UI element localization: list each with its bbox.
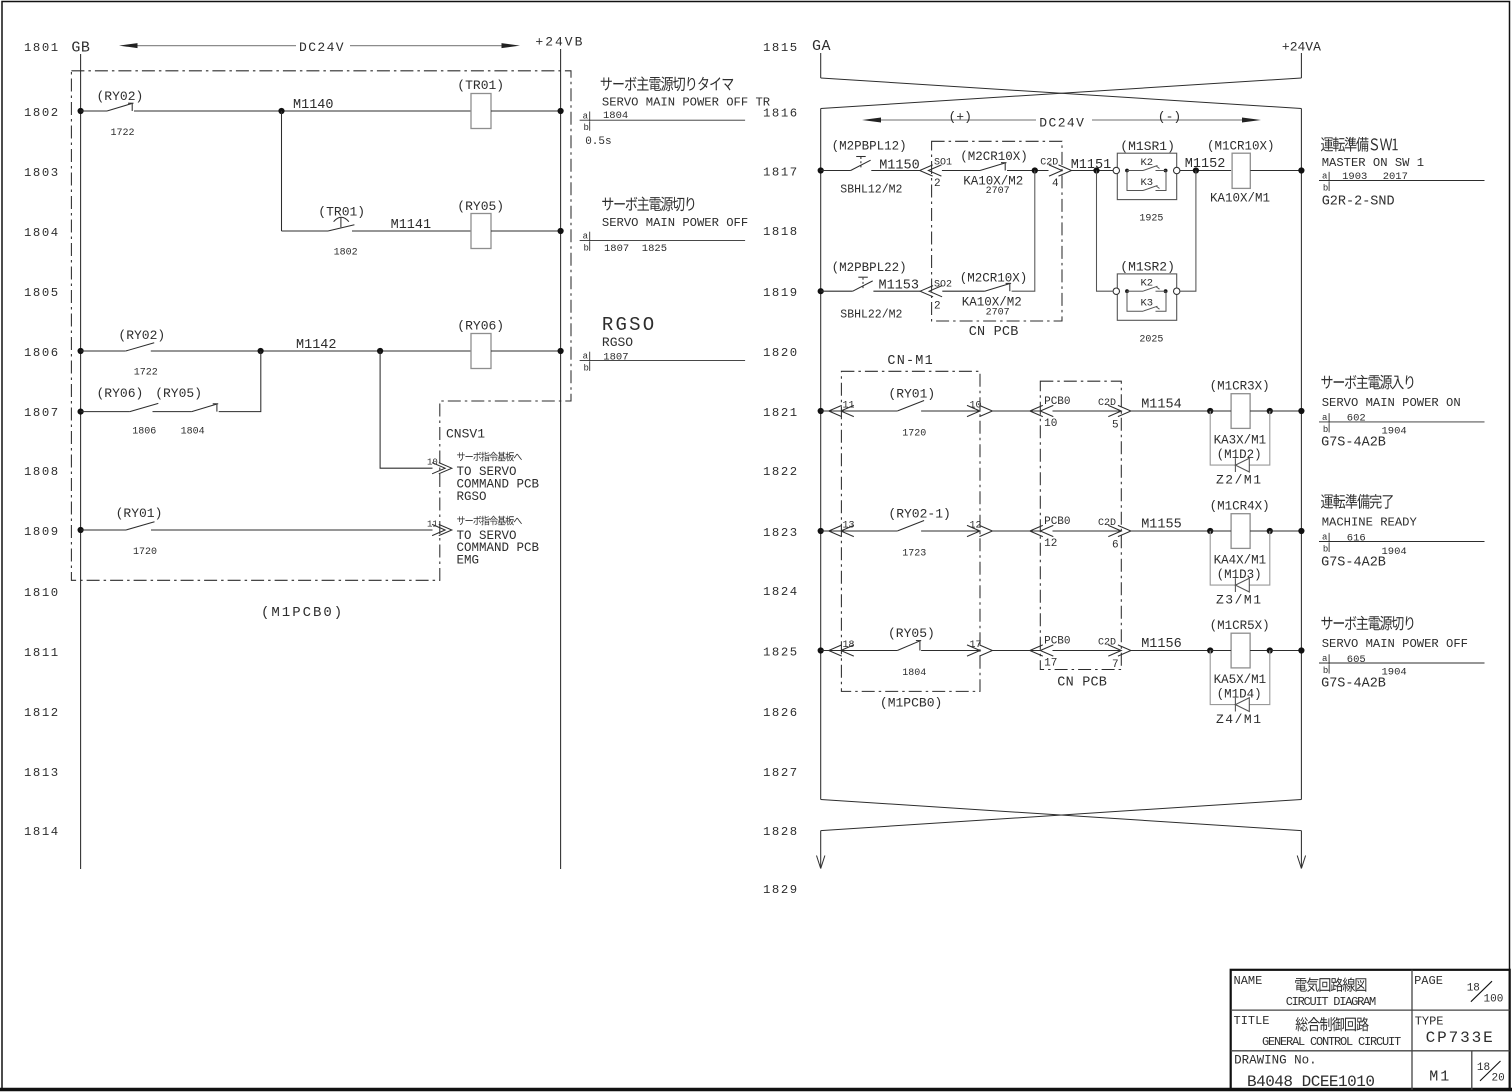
- wire through CN-M1 pin 13: [821, 530, 842, 532]
- junction node: [1267, 528, 1273, 534]
- svg-text:616: 616: [1347, 533, 1366, 545]
- GA rail bottom arrow: [820, 831, 822, 869]
- svg-text:1801: 1801: [24, 41, 60, 55]
- junction node M1140: [278, 108, 284, 114]
- CN-M1 connector boundary: [841, 371, 980, 691]
- cross-ref: machine ready (1823): [1321, 494, 1393, 509]
- contact (RY01): [841, 410, 897, 412]
- svg-text:C2D: C2D: [1098, 638, 1116, 649]
- junction node: [1267, 408, 1273, 414]
- svg-text:6: 6: [1112, 539, 1119, 551]
- svg-text:SO2: SO2: [934, 280, 952, 291]
- GA rail top: [820, 53, 822, 78]
- junction node: [1207, 647, 1213, 653]
- svg-text:1806: 1806: [24, 346, 60, 360]
- svg-text:1807 1825: 1807 1825: [604, 243, 667, 255]
- relay coil M1CR3X: [1231, 394, 1250, 429]
- svg-text:1805: 1805: [24, 286, 60, 300]
- connector pin PCB0 10 chevrons: [1030, 405, 1043, 416]
- svg-text:1804: 1804: [24, 226, 60, 240]
- svg-text:b: b: [584, 123, 589, 133]
- wire rung 1804: [282, 230, 329, 232]
- svg-text:MASTER ON SW 1: MASTER ON SW 1: [1322, 156, 1424, 170]
- cross-ref: servo main power off timer (1802): [601, 76, 734, 91]
- svg-text:1811: 1811: [24, 646, 60, 660]
- svg-text:(M1CR10X): (M1CR10X): [1207, 140, 1275, 154]
- DC24V bus voltage double arrow (right section): [880, 119, 1036, 121]
- cross-ref: servo main power off (1804): [602, 197, 694, 212]
- svg-text:(M2PBPL22): (M2PBPL22): [832, 261, 907, 275]
- wire coil to +24VA: [1250, 170, 1301, 172]
- svg-text:1821: 1821: [763, 406, 799, 420]
- svg-text:1804: 1804: [181, 427, 205, 438]
- svg-text:1820: 1820: [763, 346, 799, 360]
- svg-text:DC24V: DC24V: [299, 40, 345, 55]
- svg-text:12: 12: [970, 520, 982, 531]
- timer NO contact TR01 (1804): [328, 225, 354, 231]
- svg-text:KA4X/M1: KA4X/M1: [1214, 553, 1267, 567]
- NC contact M2CR10X (1819): [942, 290, 984, 292]
- interlock relay block M1SR1: [1117, 153, 1176, 199]
- svg-text:0.5s: 0.5s: [585, 136, 611, 148]
- svg-text:(M1D3): (M1D3): [1217, 568, 1262, 582]
- wire inside CN PCB: [1053, 410, 1122, 412]
- svg-text:1903: 1903: [1342, 171, 1367, 183]
- svg-text:1815: 1815: [763, 41, 799, 55]
- junction node M1152: [1193, 167, 1199, 173]
- relay coil RY05: [471, 214, 491, 249]
- wire M1156: [1131, 650, 1210, 652]
- svg-text:(TR01): (TR01): [318, 205, 365, 220]
- svg-text:17: 17: [1044, 658, 1057, 670]
- svg-text:1807: 1807: [24, 406, 60, 420]
- wire through CN-M1 pin 18: [821, 650, 842, 652]
- svg-text:GENERAL CONTROL CIRCUIT: GENERAL CONTROL CIRCUIT: [1262, 1035, 1401, 1049]
- CN PCB (upper) board boundary: [932, 141, 1062, 321]
- junction node: [1267, 647, 1273, 653]
- node on GB rail rung 1807: [78, 409, 84, 415]
- svg-text:K3: K3: [1141, 298, 1154, 310]
- svg-text:(M1D4): (M1D4): [1217, 688, 1262, 702]
- node on GA rail: [818, 408, 824, 414]
- svg-text:PCB0: PCB0: [1044, 396, 1070, 408]
- contact (RY02-1): [841, 530, 897, 532]
- svg-text:(RY05): (RY05): [888, 626, 935, 641]
- connector pin SO1 chevrons: [920, 165, 933, 176]
- svg-text:M1152: M1152: [1185, 157, 1226, 172]
- svg-text:(TR01): (TR01): [457, 78, 504, 93]
- wire branch M1142 down to CNSV1 pin 10: [380, 351, 432, 468]
- wire inside CN PCB: [1053, 530, 1122, 532]
- wire and riser to rung 1806: [219, 351, 261, 412]
- wire to CN PCB: [992, 530, 1040, 532]
- svg-text:MACHINE READY: MACHINE READY: [1322, 516, 1418, 530]
- junction node to rung 1807 branch: [258, 348, 264, 354]
- NO contact RY01 (1809): [126, 522, 155, 530]
- relay coil M1CR4X: [1231, 514, 1250, 549]
- node on GB rail rung 1802: [78, 108, 84, 114]
- wire to +24VA rail: [1270, 530, 1302, 532]
- svg-text:b: b: [584, 243, 589, 253]
- junction node C2D riser: [1032, 167, 1038, 173]
- svg-text:1804: 1804: [902, 668, 926, 679]
- connector pin C2D chevrons: [1049, 165, 1062, 176]
- +24VA rail top: [1300, 53, 1302, 78]
- svg-text:(RY02): (RY02): [97, 89, 144, 104]
- svg-text:11: 11: [843, 400, 855, 411]
- svg-text:G7S-4A2B: G7S-4A2B: [1321, 436, 1386, 451]
- svg-text:18: 18: [843, 640, 855, 651]
- svg-text:M1142: M1142: [296, 338, 337, 353]
- wire through CN-M1 pin 11: [821, 410, 842, 412]
- svg-text:1828: 1828: [763, 825, 799, 839]
- svg-text:(RY05): (RY05): [457, 199, 504, 214]
- svg-text:PAGE: PAGE: [1414, 974, 1443, 988]
- svg-text:1814: 1814: [24, 825, 60, 839]
- wire to CN PCB: [992, 410, 1040, 412]
- cross-ref: servo main power off (1825): [1321, 616, 1413, 631]
- svg-text:1722: 1722: [111, 128, 135, 139]
- node on GA rail: [818, 647, 824, 653]
- NO contact RY02 (1806): [126, 343, 155, 351]
- svg-text:2707: 2707: [986, 307, 1010, 318]
- wire branch down from M1140: [281, 111, 283, 231]
- CN PCB (lower) board boundary: [1040, 381, 1121, 669]
- svg-text:1723: 1723: [902, 549, 926, 560]
- svg-text:1802: 1802: [334, 247, 358, 258]
- bus crossover X (bottom): [821, 800, 1302, 831]
- svg-text:1806: 1806: [132, 427, 156, 438]
- svg-text:1809: 1809: [24, 525, 60, 539]
- svg-text:602: 602: [1347, 413, 1366, 425]
- svg-text:CP733E: CP733E: [1426, 1029, 1495, 1047]
- svg-text:1823: 1823: [763, 526, 799, 540]
- +24VA rail bottom arrow: [1300, 831, 1302, 869]
- connector pin C2D 7 chevrons: [1108, 645, 1121, 656]
- svg-text:Z4/M1: Z4/M1: [1216, 712, 1263, 727]
- svg-text:1826: 1826: [763, 706, 799, 720]
- svg-text:2707: 2707: [986, 186, 1010, 197]
- svg-text:PCB0: PCB0: [1044, 636, 1070, 648]
- svg-text:M1153: M1153: [879, 279, 920, 294]
- DC24V bus voltage double arrow (left section): [137, 45, 296, 47]
- wire M1151: [1072, 170, 1114, 172]
- svg-text:17: 17: [970, 640, 982, 651]
- svg-text:10: 10: [1044, 418, 1057, 430]
- svg-text:SO1: SO1: [934, 158, 952, 169]
- svg-text:10: 10: [427, 458, 438, 468]
- wire between contacts: [153, 411, 192, 413]
- title block: [1231, 970, 1510, 1090]
- svg-text:(M1CR5X): (M1CR5X): [1210, 619, 1270, 633]
- cross-ref: servo main power on (1821): [1321, 375, 1413, 390]
- svg-text:(RY06): (RY06): [97, 386, 144, 401]
- JP: servo command board (pin11): [457, 516, 522, 526]
- svg-text:1720: 1720: [133, 547, 157, 558]
- contact (RY05): [841, 650, 897, 652]
- junction node to CNSV1 pin10 branch: [377, 348, 383, 354]
- wire M1152: [1180, 170, 1231, 172]
- svg-text:CN PCB: CN PCB: [969, 325, 1019, 340]
- svg-text:1802: 1802: [24, 106, 60, 120]
- svg-text:Z2/M1: Z2/M1: [1216, 473, 1263, 488]
- svg-text:KA5X/M1: KA5X/M1: [1214, 673, 1267, 687]
- connector pin 10 chevrons (CNSV1): [432, 463, 445, 474]
- relay coil RY06: [471, 334, 491, 369]
- svg-text:2: 2: [934, 178, 941, 190]
- svg-text:CNSV1: CNSV1: [446, 427, 485, 442]
- svg-text:(-): (-): [1158, 110, 1181, 125]
- relay coil M1CR5X: [1231, 633, 1250, 668]
- wire and riser to C2D junction: [1012, 171, 1035, 292]
- svg-text:NAME: NAME: [1234, 974, 1263, 988]
- wire to C2D: [1007, 170, 1049, 172]
- svg-text:(RY02-1): (RY02-1): [888, 507, 950, 522]
- wire coil RY06 to +24VB: [491, 350, 561, 352]
- svg-text:2025: 2025: [1139, 334, 1163, 345]
- svg-text:5: 5: [1112, 419, 1119, 431]
- M1PCB0 board boundary (dash-dot): [71, 71, 571, 581]
- svg-text:C2D: C2D: [1040, 158, 1058, 169]
- wire M1152 riser to M1SR2: [1180, 171, 1196, 292]
- wire rung 1809: [81, 529, 126, 531]
- svg-text:SERVO MAIN POWER OFF: SERVO MAIN POWER OFF: [602, 216, 748, 230]
- svg-text:1825: 1825: [763, 646, 799, 660]
- wire rung 1806: [81, 350, 126, 352]
- svg-text:(RY01): (RY01): [888, 387, 935, 402]
- svg-text:K2: K2: [1141, 157, 1154, 169]
- NC contact RY02 (1802): [107, 104, 132, 111]
- svg-text:CN PCB: CN PCB: [1057, 676, 1107, 691]
- wire to CN PCB: [992, 650, 1040, 652]
- svg-text:1803: 1803: [24, 166, 60, 180]
- svg-text:PCB0: PCB0: [1044, 516, 1070, 528]
- pushbutton M2PBPL22: [853, 281, 873, 291]
- svg-text:+24VA: +24VA: [1282, 39, 1321, 54]
- junction node: [1207, 408, 1213, 414]
- svg-text:TITLE: TITLE: [1234, 1014, 1270, 1028]
- svg-text:10: 10: [970, 400, 982, 411]
- wire to +24VA rail: [1270, 650, 1302, 652]
- svg-text:(M1CR4X): (M1CR4X): [1210, 500, 1270, 514]
- connector pin 11 chevrons (CNSV1): [432, 524, 445, 535]
- svg-text:TYPE: TYPE: [1415, 1015, 1444, 1029]
- svg-text:M1151: M1151: [1071, 158, 1112, 173]
- svg-text:(RY02): (RY02): [118, 328, 165, 343]
- svg-text:M1141: M1141: [391, 218, 432, 233]
- svg-text:CN-M1: CN-M1: [887, 354, 934, 369]
- wire rung 1802: [81, 110, 107, 112]
- svg-text:SERVO MAIN POWER ON: SERVO MAIN POWER ON: [1322, 396, 1461, 410]
- wire rung 1817: [821, 170, 851, 172]
- wire M1142: [151, 350, 471, 352]
- svg-text:(M2CR10X): (M2CR10X): [960, 150, 1028, 164]
- svg-text:1824: 1824: [763, 585, 799, 599]
- junction node M1151: [1093, 167, 1099, 173]
- GA rail: [820, 109, 822, 800]
- svg-text:M1150: M1150: [879, 159, 920, 174]
- svg-text:11: 11: [427, 520, 438, 530]
- svg-text:18: 18: [1477, 1062, 1490, 1074]
- wire to CN-M1 pin 10: [921, 410, 980, 412]
- svg-text:SBHL22/M2: SBHL22/M2: [840, 309, 902, 322]
- svg-text:+24VB: +24VB: [535, 35, 584, 50]
- relay coil TR01: [471, 94, 491, 129]
- svg-text:b: b: [1323, 425, 1328, 435]
- svg-text:605: 605: [1347, 654, 1366, 666]
- svg-text:RGSO: RGSO: [602, 314, 656, 336]
- svg-text:(RY01): (RY01): [116, 506, 163, 521]
- svg-text:1925: 1925: [1139, 214, 1163, 225]
- svg-text:(M1PCB0): (M1PCB0): [880, 695, 942, 710]
- svg-text:1829: 1829: [763, 883, 799, 897]
- svg-text:2017: 2017: [1383, 171, 1408, 183]
- connector pin C2D 5 chevrons: [1108, 405, 1121, 416]
- relay coil M1CR10X: [1232, 153, 1250, 188]
- svg-text:b: b: [1323, 184, 1328, 194]
- svg-text:C2D: C2D: [1098, 398, 1116, 409]
- svg-text:(+): (+): [949, 110, 972, 125]
- wire inside CN PCB: [1053, 650, 1122, 652]
- svg-text:1819: 1819: [763, 286, 799, 300]
- svg-text:GA: GA: [812, 38, 831, 55]
- svg-text:B4048 DCEE1010: B4048 DCEE1010: [1247, 1073, 1374, 1091]
- svg-text:(RY05): (RY05): [155, 386, 202, 401]
- JP: servo command board (pin10): [457, 452, 522, 462]
- wire coil RY05 to +24VB: [491, 230, 561, 232]
- svg-text:4: 4: [1052, 178, 1059, 190]
- svg-text:1812: 1812: [24, 706, 60, 720]
- svg-text:M1: M1: [1429, 1069, 1451, 1086]
- svg-text:CIRCUIT DIAGRAM: CIRCUIT DIAGRAM: [1286, 995, 1376, 1009]
- svg-text:C2D: C2D: [1098, 518, 1116, 529]
- connector pin PCB0 17 chevrons: [1030, 645, 1043, 656]
- wire M1153: [873, 290, 920, 292]
- svg-text:(M1PCB0): (M1PCB0): [261, 605, 344, 621]
- svg-text:G2R-2-SND: G2R-2-SND: [1322, 194, 1395, 209]
- svg-text:12: 12: [1044, 538, 1057, 550]
- svg-text:1810: 1810: [24, 586, 60, 600]
- wire M1141: [352, 230, 471, 232]
- svg-text:1817: 1817: [763, 166, 799, 180]
- node on GA rail rung 1817: [818, 167, 824, 173]
- svg-text:M1155: M1155: [1141, 518, 1182, 533]
- svg-text:(M1CR3X): (M1CR3X): [1210, 380, 1270, 394]
- wire rung 1807: [81, 411, 130, 413]
- svg-text:(RY06): (RY06): [457, 318, 504, 333]
- svg-text:RGSO: RGSO: [457, 490, 487, 504]
- connector pin SO2 chevrons: [920, 286, 933, 297]
- cross-ref: master on SW1 (1817): [1321, 137, 1398, 152]
- svg-text:G7S-4A2B: G7S-4A2B: [1321, 556, 1386, 571]
- svg-text:M1154: M1154: [1141, 398, 1182, 413]
- wire coil TR01 to +24VB: [491, 110, 561, 112]
- NC contact RY05 (1807): [192, 404, 217, 411]
- svg-text:G7S-4A2B: G7S-4A2B: [1321, 677, 1386, 692]
- wire M1155: [1131, 530, 1210, 532]
- svg-text:13: 13: [843, 520, 855, 531]
- GB rail (left bus): [80, 54, 82, 869]
- svg-text:SBHL12/M2: SBHL12/M2: [840, 183, 902, 196]
- svg-text:(M1D2): (M1D2): [1217, 448, 1262, 462]
- svg-text:1827: 1827: [763, 766, 799, 780]
- svg-text:1813: 1813: [24, 766, 60, 780]
- svg-text:EMG: EMG: [457, 554, 480, 568]
- svg-text:2: 2: [934, 301, 941, 313]
- svg-text:M1156: M1156: [1141, 637, 1182, 652]
- bus crossover X (top): [821, 78, 1302, 109]
- svg-text:b: b: [1323, 545, 1328, 555]
- svg-text:K3: K3: [1141, 177, 1154, 189]
- wire rung 1819: [821, 290, 853, 292]
- svg-text:b: b: [1323, 666, 1328, 676]
- wire to CN-M1 pin 17: [921, 650, 980, 652]
- svg-text:1818: 1818: [763, 225, 799, 239]
- svg-text:Z3/M1: Z3/M1: [1216, 593, 1263, 608]
- svg-text:100: 100: [1484, 994, 1504, 1006]
- svg-text:SERVO MAIN POWER OFF TR: SERVO MAIN POWER OFF TR: [602, 96, 770, 110]
- wire to CNSV1 pin 11: [151, 529, 433, 531]
- svg-text:20: 20: [1492, 1073, 1505, 1085]
- wire M1150: [871, 170, 919, 172]
- svg-text:K2: K2: [1141, 278, 1154, 290]
- svg-text:18: 18: [1467, 983, 1480, 995]
- node on GA rail rung 1819: [818, 288, 824, 294]
- wire M1151 riser to M1SR2: [1097, 171, 1114, 292]
- svg-text:M1140: M1140: [293, 98, 334, 113]
- node on GB rail rung 1809: [78, 527, 84, 533]
- wire M1154: [1131, 410, 1210, 412]
- wire to CN-M1 pin 12: [921, 530, 980, 532]
- connector pin C2D 6 chevrons: [1108, 525, 1121, 536]
- pushbutton M2PBPL12: [851, 160, 871, 170]
- +24VB rail (right bus): [560, 49, 562, 869]
- svg-text:DRAWING No.: DRAWING No.: [1234, 1054, 1317, 1068]
- svg-text:(M2PBPL12): (M2PBPL12): [832, 140, 907, 154]
- svg-text:(M2CR10X): (M2CR10X): [960, 272, 1028, 286]
- +24VA rail: [1300, 109, 1302, 800]
- svg-text:1822: 1822: [763, 465, 799, 479]
- node on GB rail rung 1806: [78, 348, 84, 354]
- node on GA rail: [818, 528, 824, 534]
- wire to +24VA rail: [1270, 410, 1302, 412]
- svg-text:(M1SR2): (M1SR2): [1120, 260, 1175, 275]
- svg-text:RGSO: RGSO: [602, 335, 633, 350]
- svg-text:KA10X/M1: KA10X/M1: [1210, 192, 1270, 206]
- svg-text:1722: 1722: [134, 368, 158, 379]
- svg-text:1808: 1808: [24, 465, 60, 479]
- NC contact M2CR10X (1817): [942, 170, 980, 172]
- NO contact RY06 (1807): [130, 403, 159, 411]
- svg-text:SERVO MAIN POWER OFF: SERVO MAIN POWER OFF: [1322, 637, 1468, 651]
- svg-text:7: 7: [1112, 659, 1119, 671]
- svg-text:1720: 1720: [902, 429, 926, 440]
- connector pin PCB0 12 chevrons: [1030, 525, 1043, 536]
- svg-text:(M1SR1): (M1SR1): [1120, 139, 1175, 154]
- svg-text:KA3X/M1: KA3X/M1: [1214, 433, 1267, 447]
- svg-text:b: b: [584, 363, 589, 373]
- junction node: [1207, 528, 1213, 534]
- svg-text:1807: 1807: [603, 352, 628, 364]
- svg-text:DC24V: DC24V: [1039, 116, 1085, 131]
- interlock relay block M1SR2: [1117, 274, 1176, 320]
- wire M1140: [134, 110, 471, 112]
